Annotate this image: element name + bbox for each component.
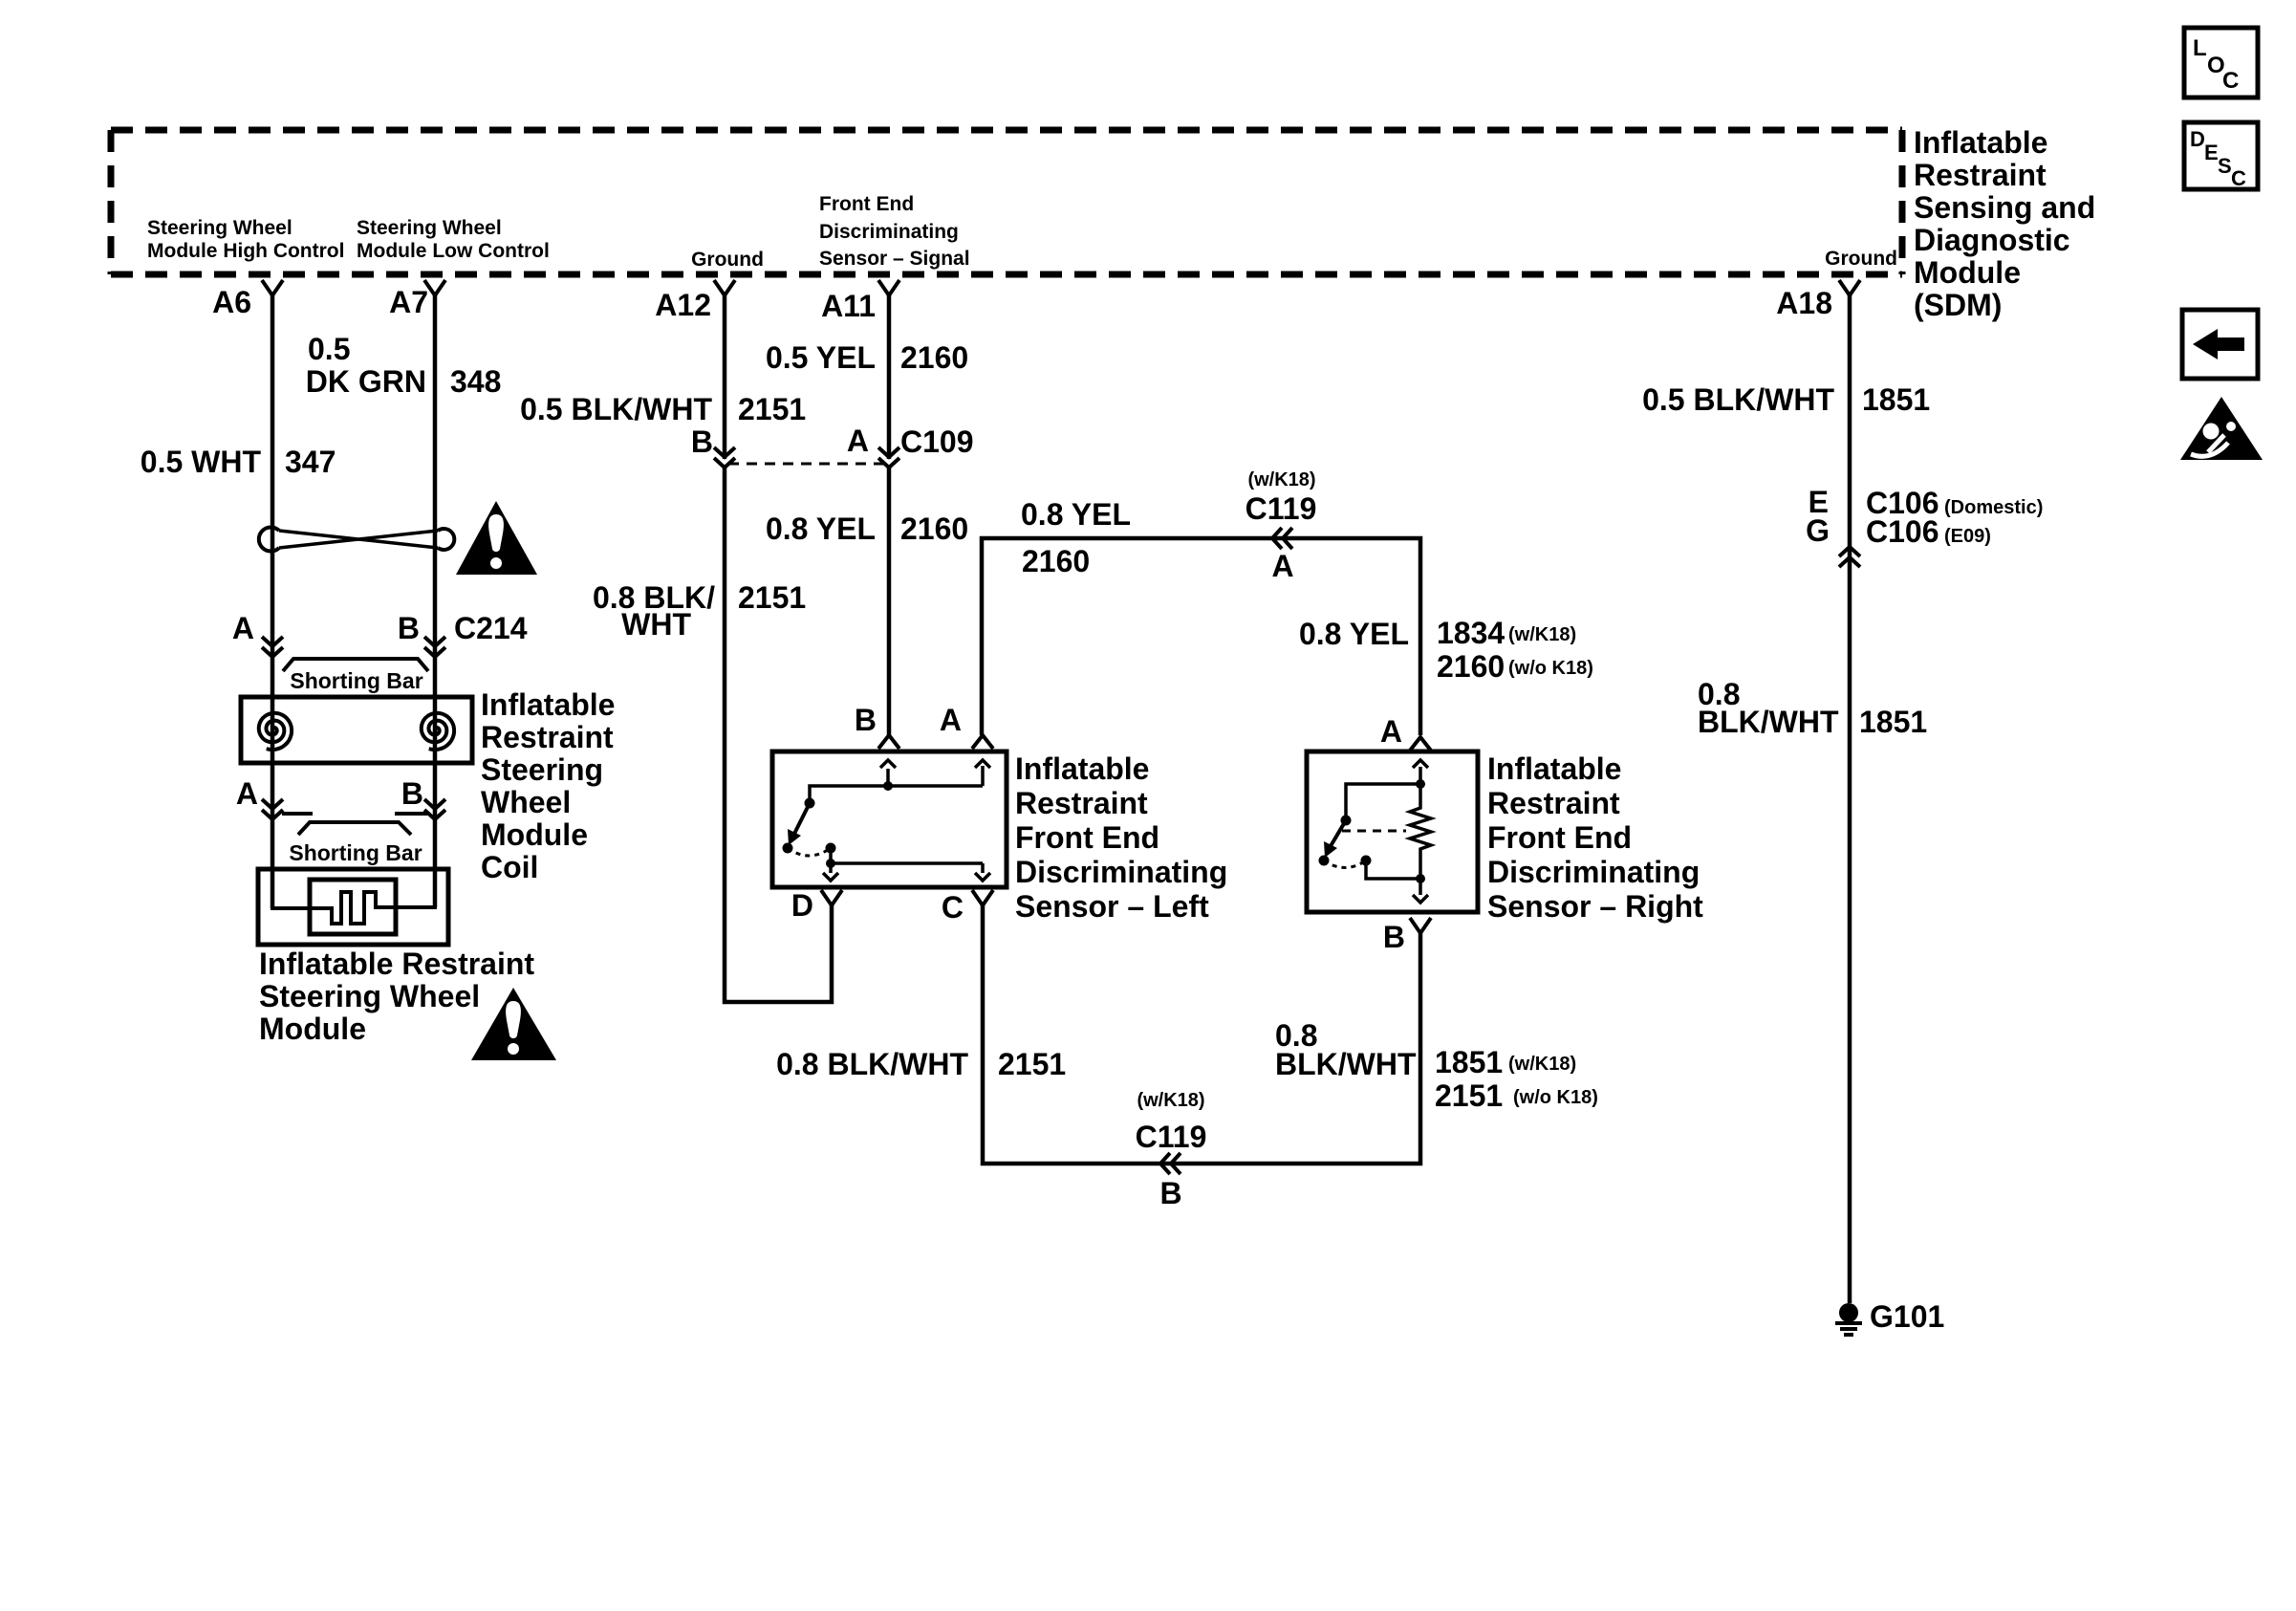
wire A7 to steering wheel module (circuit 348): [433, 295, 438, 907]
connector C109 pin B chevrons: [714, 447, 735, 457]
wire left sensor A to right sensor A (circuit 2160): [982, 538, 1420, 735]
front end discriminating sensor right box: [1307, 751, 1478, 912]
svg-text:Steering: Steering: [481, 752, 603, 787]
svg-text:C: C: [942, 890, 964, 925]
svg-text:Restraint: Restraint: [1914, 158, 2047, 192]
svg-text:347: 347: [285, 445, 336, 479]
wire A12 ground lower segment to sensor D: [725, 468, 832, 1002]
left sensor switch contact dot right: [826, 843, 836, 854]
pin A18 terminal fork: [1839, 280, 1860, 295]
svg-text:(w/K18): (w/K18): [1247, 469, 1315, 490]
left sensor switch blade arrow: [794, 803, 810, 834]
svg-text:Coil: Coil: [481, 850, 538, 884]
svg-text:B: B: [401, 776, 423, 811]
svg-text:Discriminating: Discriminating: [1487, 855, 1700, 889]
right sensor pin B fork: [1410, 918, 1431, 933]
connector C106 chevrons: [1839, 547, 1860, 556]
wire A18 to G101 (circuit 1851): [1848, 295, 1852, 1303]
svg-text:C109: C109: [900, 425, 974, 459]
svg-text:Steering Wheel: Steering Wheel: [357, 217, 502, 239]
pin A12 terminal fork: [714, 280, 735, 295]
left sensor internal node bar: [810, 786, 983, 803]
left sensor pin C fork: [972, 890, 993, 905]
svg-text:0.5 YEL: 0.5 YEL: [766, 340, 876, 375]
svg-text:A7: A7: [389, 285, 428, 319]
svg-text:A: A: [236, 776, 258, 811]
svg-text:0.8 YEL: 0.8 YEL: [1299, 617, 1409, 651]
svg-text:B: B: [398, 611, 420, 645]
svg-text:Wheel: Wheel: [481, 785, 571, 819]
left sensor switch contact dot left: [783, 843, 793, 854]
DESC navigation box: [2184, 122, 2258, 189]
right sensor pin A fork: [1410, 737, 1431, 751]
svg-text:A: A: [1271, 549, 1293, 583]
svg-text:B: B: [1159, 1176, 1181, 1210]
right sensor contact-to-output wire: [1366, 860, 1420, 879]
svg-text:2151: 2151: [998, 1047, 1066, 1081]
svg-text:0.8 YEL: 0.8 YEL: [766, 512, 876, 546]
connector C109 mating dashed line: [728, 463, 885, 466]
wire A11 signal upper segment (circuit 2160): [887, 295, 892, 459]
svg-text:0.5 BLK/WHT: 0.5 BLK/WHT: [520, 392, 712, 426]
right sensor resistor: [1410, 784, 1431, 879]
coil-to-module pin A chevrons: [262, 799, 283, 809]
svg-text:0.8 BLK/WHT: 0.8 BLK/WHT: [776, 1047, 968, 1081]
wire left sensor C to right sensor B (ground return): [983, 905, 1420, 1164]
right sensor junction dot A: [1416, 779, 1425, 789]
svg-text:2151: 2151: [738, 392, 806, 426]
svg-text:C: C: [2222, 68, 2239, 94]
coil-to-module pin B chevrons: [424, 799, 445, 809]
svg-text:A12: A12: [655, 288, 711, 322]
svg-text:BLK/WHT: BLK/WHT: [1698, 705, 1839, 739]
coil spiral left: [259, 713, 292, 750]
svg-text:C: C: [2231, 166, 2246, 190]
svg-text:0.5 BLK/WHT: 0.5 BLK/WHT: [1642, 382, 1834, 417]
left sensor pin D fork: [821, 890, 842, 905]
right sensor switch pivot dot: [1341, 816, 1352, 826]
right sensor switch contact dot right: [1361, 856, 1372, 866]
svg-text:A: A: [232, 611, 254, 645]
svg-text:Sensor – Signal: Sensor – Signal: [819, 248, 970, 270]
svg-text:Steering Wheel: Steering Wheel: [259, 979, 480, 1013]
pin A11 terminal fork: [878, 280, 899, 295]
svg-text:C106: C106: [1866, 514, 1939, 549]
svg-text:Module: Module: [1914, 255, 2021, 290]
svg-text:2151: 2151: [738, 580, 806, 615]
svg-text:Front End: Front End: [1487, 820, 1632, 855]
svg-text:A18: A18: [1776, 286, 1832, 320]
svg-text:1851: 1851: [1859, 705, 1927, 739]
svg-text:2151: 2151: [1435, 1078, 1503, 1113]
wire A12 ground upper segment (circuit 2151): [723, 295, 727, 459]
front end discriminating sensor left box: [772, 751, 1007, 887]
svg-text:Inflatable Restraint: Inflatable Restraint: [259, 947, 534, 981]
svg-text:(w/K18): (w/K18): [1508, 624, 1576, 645]
svg-text:(SDM): (SDM): [1914, 288, 2002, 322]
shorting bar 2 left tick: [282, 812, 313, 816]
ground G101 symbol: [1839, 1303, 1858, 1322]
svg-text:Sensing and: Sensing and: [1914, 190, 2095, 225]
svg-text:1834: 1834: [1437, 616, 1505, 650]
svg-text:A: A: [940, 703, 962, 737]
left sensor pin A fork: [972, 735, 993, 749]
svg-text:(E09): (E09): [1944, 526, 1991, 547]
svg-text:Shorting Bar: Shorting Bar: [290, 668, 422, 693]
LOC navigation box: [2184, 28, 2258, 98]
steering wheel module coil box: [241, 697, 472, 763]
svg-text:S: S: [2218, 154, 2232, 178]
right sensor internal node bar: [1346, 784, 1420, 820]
svg-text:Discriminating: Discriminating: [819, 221, 959, 243]
svg-text:Restraint: Restraint: [481, 720, 614, 754]
svg-text:Ground: Ground: [1825, 248, 1897, 270]
svg-text:BLK/WHT: BLK/WHT: [1275, 1047, 1417, 1081]
airbag caution triangle icon: [2180, 397, 2263, 460]
left sensor switch pivot dot: [805, 798, 815, 809]
svg-text:Module: Module: [259, 1012, 366, 1046]
svg-text:Module: Module: [481, 817, 588, 852]
SDM module dashed box bottom edge: [111, 272, 1902, 278]
left sensor switch travel dashed arc: [788, 848, 831, 856]
svg-text:G: G: [1806, 513, 1830, 548]
svg-text:G101: G101: [1870, 1299, 1944, 1334]
connector C119 lower chevrons: [1160, 1153, 1170, 1174]
connector C119 upper chevrons: [1272, 528, 1282, 549]
warning triangle symbol 1: [456, 501, 537, 575]
svg-text:(Domestic): (Domestic): [1944, 497, 2043, 518]
right sensor switch contact dot left: [1319, 856, 1330, 866]
svg-text:Ground: Ground: [691, 249, 764, 271]
svg-text:0.5 WHT: 0.5 WHT: [141, 445, 262, 479]
svg-text:A: A: [847, 424, 869, 458]
svg-text:Inflatable: Inflatable: [1487, 751, 1621, 786]
connector C214 pin B chevrons: [424, 637, 445, 646]
right sensor internal pin A arrow: [1419, 767, 1422, 784]
shorting bar 2 right tick: [395, 812, 427, 816]
svg-text:C119: C119: [1136, 1120, 1207, 1154]
svg-text:B: B: [691, 425, 713, 459]
squib element trace: [272, 869, 435, 924]
svg-text:C119: C119: [1245, 491, 1317, 526]
svg-text:0.5: 0.5: [308, 332, 350, 366]
wire A6 to steering wheel module (circuit 347): [271, 295, 275, 908]
svg-text:D: D: [2190, 127, 2205, 151]
svg-text:Discriminating: Discriminating: [1015, 855, 1227, 889]
svg-text:Front End: Front End: [819, 193, 914, 215]
svg-text:(w/o K18): (w/o K18): [1513, 1087, 1598, 1108]
svg-text:Inflatable: Inflatable: [1015, 751, 1149, 786]
svg-text:L: L: [2193, 35, 2207, 61]
svg-text:0.8 YEL: 0.8 YEL: [1021, 497, 1131, 532]
right sensor mechanical link dashed line: [1342, 830, 1406, 833]
left sensor contact-to-output wire: [831, 848, 983, 863]
SDM module dashed box right edge: [1899, 130, 1906, 274]
svg-text:(w/K18): (w/K18): [1508, 1054, 1576, 1075]
svg-text:Module High Control: Module High Control: [147, 240, 344, 262]
svg-text:DK GRN: DK GRN: [306, 364, 426, 399]
twisted pair symbol: [259, 528, 279, 552]
squib inner box: [310, 880, 396, 934]
svg-text:A: A: [1380, 714, 1402, 749]
SDM module dashed box left edge: [108, 130, 115, 274]
warning triangle symbol 2: [471, 988, 556, 1060]
left sensor junction dot B: [883, 781, 893, 791]
left sensor internal pin D arrow: [829, 863, 833, 873]
svg-text:2160: 2160: [1437, 649, 1505, 684]
steering wheel module box: [258, 869, 448, 945]
coil spiral right: [422, 713, 454, 750]
svg-text:A11: A11: [821, 289, 876, 323]
connector C214 pin A chevrons: [262, 637, 283, 646]
svg-text:(w/o K18): (w/o K18): [1508, 658, 1593, 679]
svg-text:2160: 2160: [1022, 544, 1090, 578]
svg-text:Front End: Front End: [1015, 820, 1159, 855]
svg-text:B: B: [855, 703, 877, 737]
svg-text:Sensor – Left: Sensor – Left: [1015, 889, 1209, 924]
right sensor junction dot B: [1416, 874, 1425, 883]
svg-text:1851: 1851: [1435, 1045, 1503, 1079]
svg-text:2160: 2160: [900, 512, 968, 546]
wire A11 signal lower segment to left sensor B: [887, 468, 892, 735]
left sensor internal pin B arrow: [886, 769, 890, 786]
svg-text:Steering Wheel: Steering Wheel: [147, 217, 292, 239]
svg-text:348: 348: [450, 364, 501, 399]
left sensor internal pin A arrow: [981, 766, 985, 786]
left sensor internal pin C arrow: [981, 863, 985, 873]
svg-text:2160: 2160: [900, 340, 968, 375]
right sensor switch travel dashed arc: [1324, 860, 1366, 868]
right sensor switch blade arrow: [1331, 820, 1346, 846]
pin A6 terminal fork: [262, 280, 283, 295]
right sensor internal pin B arrow: [1419, 879, 1422, 895]
back arrow box: [2182, 310, 2258, 379]
svg-text:Inflatable: Inflatable: [1914, 125, 2047, 160]
svg-text:A6: A6: [212, 285, 251, 319]
pin A7 terminal fork: [424, 280, 445, 295]
left sensor pin B fork: [878, 735, 899, 749]
shorting bar 1 bracket: [283, 659, 428, 671]
left sensor junction dot D: [826, 859, 835, 868]
svg-text:1851: 1851: [1862, 382, 1930, 417]
svg-text:E: E: [2204, 141, 2219, 164]
svg-text:Diagnostic: Diagnostic: [1914, 223, 2070, 257]
svg-text:D: D: [791, 888, 813, 923]
svg-text:WHT: WHT: [621, 607, 691, 642]
svg-text:Shorting Bar: Shorting Bar: [289, 840, 422, 865]
svg-text:Sensor – Right: Sensor – Right: [1487, 889, 1703, 924]
svg-text:B: B: [1383, 920, 1405, 954]
svg-text:C214: C214: [454, 611, 528, 645]
svg-text:Restraint: Restraint: [1487, 786, 1620, 820]
connector C109 pin A chevrons: [878, 447, 899, 457]
svg-text:(w/K18): (w/K18): [1137, 1090, 1204, 1111]
svg-text:Restraint: Restraint: [1015, 786, 1148, 820]
shorting bar 2 bracket: [298, 822, 411, 835]
SDM module dashed box top edge: [111, 127, 1902, 134]
svg-text:Inflatable: Inflatable: [481, 687, 615, 722]
svg-text:Module Low Control: Module Low Control: [357, 240, 550, 262]
